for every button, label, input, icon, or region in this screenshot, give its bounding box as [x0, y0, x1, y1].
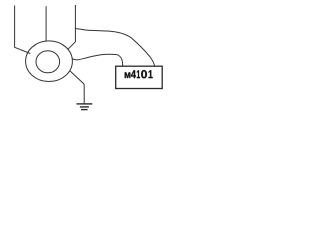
lead wire 3 (right, bent): [68, 5, 76, 49]
ground wire: [70, 71, 85, 104]
lead wire 1 (left, bent): [15, 6, 31, 54]
meter label м4101: [125, 70, 153, 78]
ground symbol: [77, 104, 93, 110]
meter M4101 box: [116, 66, 163, 88]
device outer circle (hand-drawn oval): [26, 41, 73, 82]
lead wire 2 (middle vertical): [45, 6, 47, 41]
wire from lead 3 to meter (curved): [75, 29, 154, 67]
device inner circle: [36, 51, 60, 73]
wire from device right side to meter (curved): [72, 54, 123, 66]
